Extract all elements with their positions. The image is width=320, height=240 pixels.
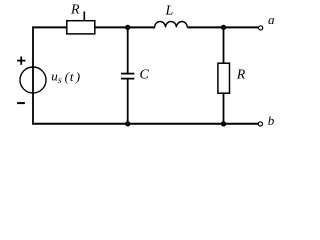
node junction top capacitor xyxy=(125,25,130,30)
wire top rail left segment xyxy=(32,26,67,28)
wire top rail middle segment xyxy=(95,26,155,28)
svg-text:): ) xyxy=(75,69,80,84)
resistor R1 xyxy=(67,3,95,34)
svg-text:a: a xyxy=(268,12,275,27)
inductor L xyxy=(155,4,188,28)
capacitor C xyxy=(121,68,150,83)
node junction bottom load xyxy=(221,121,226,126)
resistor R xyxy=(218,63,246,93)
svg-text:b: b xyxy=(268,113,275,128)
wire capacitor branch upper xyxy=(127,27,129,73)
voltage source U1 xyxy=(20,67,80,93)
svg-text:s: s xyxy=(58,76,62,86)
terminal a xyxy=(259,12,276,30)
node junction bottom capacitor xyxy=(125,121,130,126)
plus polarity mark xyxy=(17,57,25,65)
minus polarity mark xyxy=(17,102,25,104)
svg-text:L: L xyxy=(165,4,174,19)
terminal b xyxy=(258,113,275,128)
wire load branch upper xyxy=(223,27,225,63)
svg-text:R: R xyxy=(70,3,80,18)
wire left branch xyxy=(32,26,34,124)
wire bottom rail xyxy=(32,123,258,125)
svg-text:C: C xyxy=(140,68,150,83)
svg-text:t: t xyxy=(70,69,74,84)
svg-text:R: R xyxy=(236,67,246,82)
wire capacitor branch lower xyxy=(127,79,129,124)
node junction top load xyxy=(221,25,226,30)
svg-text:(: ( xyxy=(65,69,70,84)
wire top rail right segment xyxy=(187,26,258,28)
wire load branch lower xyxy=(223,93,225,125)
